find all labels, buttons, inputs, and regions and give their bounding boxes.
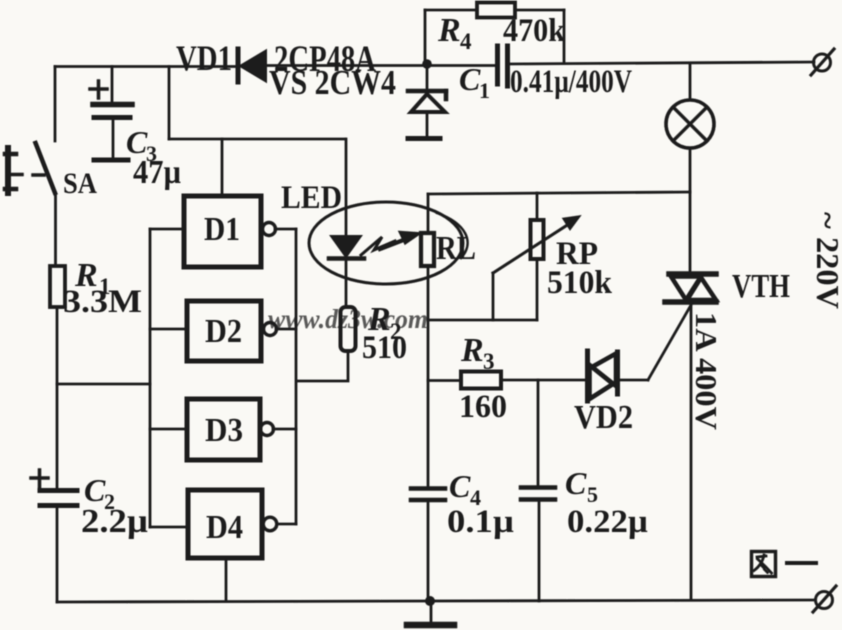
svg-text:SA: SA [63,167,97,200]
svg-text:R: R [460,332,484,369]
wire D4 output [277,523,296,526]
potentiometer RP stub top [536,193,539,220]
capacitor C1 [498,46,508,86]
wire R2 bottom to output bus [298,351,348,381]
wire bottom rail [57,600,815,602]
wire R4 top left [425,9,477,12]
inverter D3 [187,399,260,460]
svg-text:3.3M: 3.3M [63,284,142,320]
lamp [666,100,714,148]
wire D1 input [150,228,184,231]
label C5 [565,465,598,507]
svg-text:C: C [459,61,481,97]
wire R3 right lead [501,379,584,382]
wire top rail right segment [507,62,814,64]
svg-text:C: C [565,465,587,501]
svg-text:VD2: VD2 [574,399,633,436]
wire triac gate diagonal [648,305,691,380]
terminal bottom right [813,586,836,612]
label C1 [459,61,490,103]
svg-text:510k: 510k [547,265,613,301]
wire top rail left segment [55,65,237,68]
capacitor C4 [411,489,445,501]
zener diode VS [408,64,446,139]
wire RL bottom vertical [427,266,430,488]
wire lamp bottom [689,148,692,192]
svg-text:C: C [449,468,471,504]
resistor R1 [50,266,65,307]
LED diode [329,236,364,307]
wire left vertical below C2 [56,508,59,602]
svg-text:www.dz3w.com: www.dz3w.com [268,304,428,334]
wire R4 loop right vertical [563,10,566,63]
ground symbol [407,601,454,625]
wire VD2 right lead [620,379,648,382]
svg-text:VS 2CW4: VS 2CW4 [269,63,396,102]
svg-text:160: 160 [459,389,507,425]
svg-text:47µ: 47µ [133,154,181,191]
wire C5 branch vertical [537,380,540,487]
svg-text:3: 3 [483,349,495,374]
wire D1 top stub [221,139,224,196]
inverter D2 [187,301,261,361]
svg-text:RL: RL [436,230,476,267]
svg-text:1A 400V: 1A 400V [689,312,724,431]
svg-text:D2: D2 [205,313,242,350]
potentiometer RP wiper [493,216,580,320]
svg-text:1: 1 [479,78,490,103]
potentiometer RP stub bottom [536,259,539,320]
inverter D1 [184,196,261,267]
wire triac to bottom rail [690,303,693,600]
diac VD2 [588,351,618,401]
inverter D4 [188,490,262,558]
inverter D2 bubble [264,323,277,336]
label figure one dash [787,561,816,565]
capacitor C5 [521,488,555,500]
svg-text:2.2µ: 2.2µ [81,503,148,540]
capacitor C3 [93,105,132,161]
wire RL top to lamp column [428,192,690,194]
svg-text:0.1µ: 0.1µ [447,504,514,540]
photoresistor RL [421,233,434,266]
wire left vertical to R1 [54,193,57,266]
svg-text:4: 4 [460,29,472,54]
svg-text:510: 510 [362,330,407,366]
wire D4 input [150,526,188,529]
svg-text:~ 220V: ~ 220V [810,212,842,309]
wire lamp top stub [689,64,692,100]
label R4 [437,12,472,54]
svg-text:VD1: VD1 [176,38,232,78]
resistor R4 [477,3,515,18]
potentiometer RP [531,220,544,259]
gate input bus [149,229,152,527]
wire left vertical upper [54,67,57,142]
terminal top right [811,49,834,75]
wire R3 left lead [428,379,461,382]
inverter D3 bubble [261,423,274,436]
svg-text:D3: D3 [205,412,243,449]
label R1 [74,257,111,299]
junction dot VD1 C1 R4 node [422,59,432,69]
svg-text:LED: LED [281,180,342,216]
wire left vertical below R1 [56,307,59,490]
wire VD1 branch vertical [168,67,171,140]
wire D1 output [275,228,296,231]
wire lamp to triac [689,192,692,271]
label R2 [367,301,402,344]
svg-text:470k: 470k [503,13,566,49]
capacitor C2 plus sign [31,470,48,487]
svg-text:D4: D4 [206,509,243,546]
label C4 [449,468,481,510]
switch SA blade [36,143,56,193]
wire LED anode vertical [345,139,348,236]
wire D2 input [150,328,187,331]
resistor R4 loop left vertical [424,10,427,62]
light arrow from LED to RL [361,232,421,256]
triac VTH [665,274,716,302]
inverter D4 bubble [263,517,277,531]
capacitor C2 [40,491,77,506]
svg-text:0.22µ: 0.22µ [567,504,648,540]
label R3 [460,332,495,374]
inverter D1 bubble [263,223,276,236]
photoresistor RL top wire [427,194,430,233]
junction dot at ground node [425,596,435,606]
optocoupler ellipse extra arc [437,213,468,258]
resistor R3 [461,372,501,389]
wire D3 input [150,428,187,431]
gate output bus [295,229,298,524]
resistor R2 [341,307,356,351]
label C3 [126,124,157,166]
wire below C5 [538,500,541,601]
plug prongs symbol [5,148,44,193]
label C2 [84,472,115,514]
svg-text:D1: D1 [204,211,240,248]
wire D4 bottom stub [225,558,228,601]
svg-text:R: R [437,12,461,49]
wire below C4 [427,502,430,601]
wire R1 node to gate input bus [57,383,150,386]
wire C3 stub from top rail [111,67,114,103]
svg-text:0.41µ/400V: 0.41µ/400V [510,64,632,100]
diode VD1 [238,49,266,82]
optocoupler ellipse [309,202,463,284]
capacitor C3 plus sign [90,81,107,98]
wire R4 top right [515,9,564,12]
wire D2 output [276,328,296,331]
wire horizontal to LED [169,138,345,141]
wire D3 output [273,428,296,431]
wire RL-RP bottom loop [428,319,537,322]
wire top rail middle segment [265,64,497,67]
label figure one character tu [752,552,776,577]
svg-text:VTH: VTH [732,268,790,305]
